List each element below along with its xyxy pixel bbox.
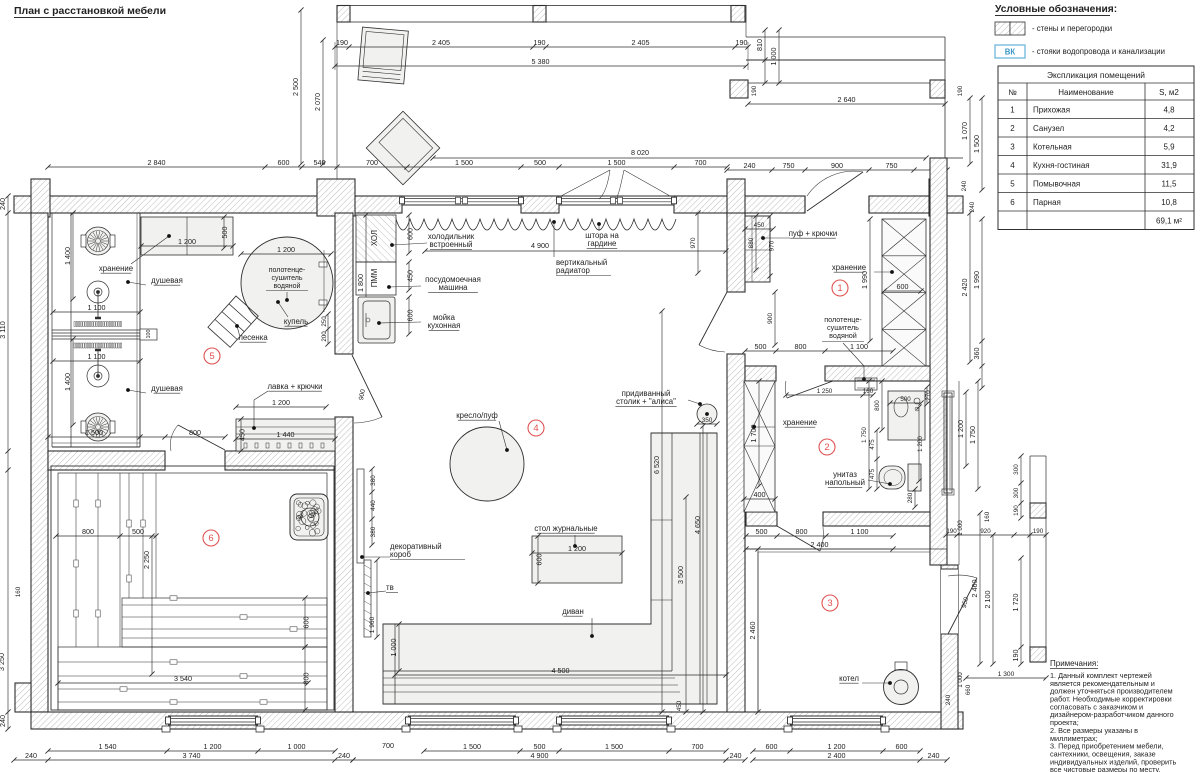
- svg-text:300: 300: [1013, 464, 1020, 475]
- svg-text:1 250: 1 250: [817, 388, 833, 395]
- svg-text:280: 280: [907, 492, 914, 503]
- svg-text:500: 500: [756, 527, 768, 536]
- svg-text:2 640: 2 640: [838, 95, 856, 104]
- svg-text:250: 250: [321, 316, 328, 327]
- svg-text:2 400: 2 400: [828, 751, 846, 760]
- svg-text:1 200: 1 200: [178, 237, 196, 246]
- svg-text:800: 800: [874, 400, 881, 411]
- svg-text:700: 700: [695, 158, 707, 167]
- svg-text:- стены и перегородки: - стены и перегородки: [1032, 24, 1112, 33]
- svg-text:1 500: 1 500: [463, 742, 481, 751]
- svg-text:450: 450: [237, 429, 246, 441]
- svg-text:1 200: 1 200: [568, 544, 586, 553]
- svg-text:2 420: 2 420: [960, 279, 969, 297]
- svg-text:радиатор: радиатор: [556, 266, 591, 275]
- svg-text:1 990: 1 990: [860, 271, 869, 289]
- svg-text:2: 2: [1010, 124, 1015, 133]
- svg-text:котел: котел: [839, 674, 859, 683]
- svg-text:350: 350: [702, 417, 713, 424]
- svg-text:900: 900: [767, 313, 774, 324]
- svg-text:4,2: 4,2: [1163, 124, 1175, 133]
- svg-text:3: 3: [827, 598, 832, 609]
- svg-text:1 500: 1 500: [85, 428, 103, 437]
- svg-text:все чистовые размеры по месту.: все чистовые размеры по месту.: [1050, 765, 1161, 772]
- svg-text:900: 900: [831, 161, 843, 170]
- svg-text:800: 800: [82, 527, 94, 536]
- svg-text:500: 500: [132, 527, 144, 536]
- svg-text:3 110: 3 110: [0, 321, 7, 338]
- svg-text:кресло/пуф: кресло/пуф: [456, 411, 498, 420]
- svg-text:2 250: 2 250: [142, 551, 151, 569]
- svg-text:540: 540: [314, 158, 326, 167]
- svg-text:240: 240: [0, 715, 7, 727]
- svg-text:тв: тв: [386, 583, 394, 592]
- svg-text:6: 6: [208, 533, 213, 544]
- svg-text:380: 380: [370, 475, 377, 486]
- svg-text:2 460: 2 460: [748, 622, 757, 640]
- svg-text:240: 240: [961, 180, 968, 191]
- svg-text:810: 810: [755, 39, 764, 51]
- svg-text:700: 700: [692, 742, 704, 751]
- svg-text:сушитель: сушитель: [271, 275, 302, 282]
- svg-text:1 200: 1 200: [277, 245, 295, 254]
- svg-text:600: 600: [278, 158, 290, 167]
- svg-text:400: 400: [754, 490, 766, 499]
- svg-text:1 990: 1 990: [972, 271, 981, 289]
- svg-text:1 400: 1 400: [63, 373, 72, 391]
- svg-text:3 250: 3 250: [0, 653, 6, 671]
- svg-text:240: 240: [730, 751, 742, 760]
- svg-text:2 460: 2 460: [970, 580, 979, 598]
- svg-text:1 300: 1 300: [998, 671, 1015, 678]
- svg-text:Прихожая: Прихожая: [1033, 106, 1070, 115]
- svg-text:600: 600: [406, 228, 415, 240]
- svg-text:лавка + крючки: лавка + крючки: [267, 382, 322, 391]
- svg-text:920: 920: [980, 528, 991, 535]
- svg-text:1 750: 1 750: [968, 426, 977, 444]
- svg-text:хранение: хранение: [99, 264, 133, 273]
- svg-text:500: 500: [755, 342, 767, 351]
- svg-text:600: 600: [896, 742, 908, 751]
- svg-text:1 500: 1 500: [608, 158, 626, 167]
- svg-text:240: 240: [744, 161, 756, 170]
- svg-text:700: 700: [382, 741, 394, 750]
- svg-text:600: 600: [534, 554, 543, 566]
- svg-text:500: 500: [900, 396, 911, 403]
- svg-text:475: 475: [869, 468, 876, 479]
- svg-text:машина: машина: [439, 283, 469, 292]
- svg-text:10,8: 10,8: [1161, 198, 1177, 207]
- svg-text:380: 380: [370, 526, 377, 537]
- svg-text:190: 190: [736, 38, 748, 47]
- svg-text:Экспликация помещений: Экспликация помещений: [1047, 70, 1145, 80]
- svg-text:600: 600: [302, 617, 311, 629]
- svg-text:Наименование: Наименование: [1058, 88, 1114, 97]
- svg-text:стол журнальные: стол журнальные: [534, 524, 597, 533]
- svg-text:190: 190: [946, 528, 957, 535]
- svg-text:1 500: 1 500: [605, 742, 623, 751]
- svg-text:Помывочная: Помывочная: [1033, 180, 1080, 189]
- svg-text:1 200: 1 200: [828, 742, 846, 751]
- svg-text:600: 600: [897, 282, 909, 291]
- svg-text:11,5: 11,5: [1162, 180, 1178, 189]
- svg-text:3 540: 3 540: [174, 674, 192, 683]
- svg-text:3 740: 3 740: [183, 751, 201, 760]
- svg-text:1 100: 1 100: [851, 527, 869, 536]
- svg-text:1 000: 1 000: [957, 520, 964, 536]
- svg-text:360: 360: [972, 348, 981, 360]
- svg-text:5: 5: [209, 351, 214, 362]
- svg-text:2 840: 2 840: [148, 158, 166, 167]
- svg-text:1 720: 1 720: [1011, 593, 1020, 611]
- svg-text:1 800: 1 800: [356, 274, 365, 292]
- svg-text:2 400: 2 400: [811, 540, 829, 549]
- svg-text:5: 5: [1010, 180, 1015, 189]
- svg-text:1: 1: [837, 283, 842, 294]
- svg-text:4 900: 4 900: [531, 751, 549, 760]
- svg-text:31,9: 31,9: [1161, 161, 1177, 170]
- svg-text:240: 240: [338, 751, 350, 760]
- svg-text:6: 6: [1010, 198, 1015, 207]
- svg-text:ХОЛ: ХОЛ: [370, 230, 379, 246]
- svg-text:2 100: 2 100: [983, 591, 992, 609]
- svg-text:лесенка: лесенка: [238, 333, 268, 342]
- svg-text:1 000: 1 000: [769, 48, 778, 66]
- svg-text:160: 160: [863, 388, 874, 395]
- svg-text:1 200: 1 200: [272, 398, 290, 407]
- svg-text:Санузел: Санузел: [1033, 124, 1064, 133]
- svg-text:450: 450: [676, 700, 683, 711]
- svg-text:800: 800: [189, 428, 201, 437]
- svg-text:5 380: 5 380: [532, 57, 550, 66]
- svg-text:Котельная: Котельная: [1033, 143, 1072, 152]
- svg-text:№: №: [1008, 88, 1017, 97]
- svg-text:240: 240: [945, 694, 952, 705]
- svg-text:душевая: душевая: [151, 384, 183, 393]
- svg-text:970: 970: [690, 237, 697, 248]
- svg-text:3 500: 3 500: [676, 566, 685, 584]
- svg-text:190: 190: [1033, 528, 1044, 535]
- svg-text:душевая: душевая: [151, 276, 183, 285]
- svg-text:700: 700: [366, 158, 378, 167]
- svg-text:диван: диван: [562, 607, 584, 616]
- svg-text:1 960: 1 960: [369, 616, 376, 633]
- svg-text:450: 450: [754, 222, 765, 229]
- svg-text:1 100: 1 100: [88, 352, 106, 361]
- svg-text:1 000: 1 000: [389, 639, 398, 657]
- svg-text:1 200: 1 200: [956, 420, 965, 438]
- svg-text:160: 160: [984, 511, 991, 522]
- svg-text:- стояки водопровода и канализ: - стояки водопровода и канализации: [1032, 47, 1165, 56]
- svg-text:Парная: Парная: [1033, 198, 1061, 207]
- svg-text:водяной: водяной: [829, 331, 857, 340]
- svg-text:Кухня-гостиная: Кухня-гостиная: [1033, 161, 1090, 170]
- svg-text:кухонная: кухонная: [428, 321, 461, 330]
- svg-text:ПММ: ПММ: [370, 269, 379, 288]
- svg-text:5,9: 5,9: [1163, 143, 1175, 152]
- svg-text:190: 190: [534, 38, 546, 47]
- svg-text:300: 300: [1013, 487, 1020, 498]
- svg-text:пуф + крючки: пуф + крючки: [789, 229, 838, 238]
- svg-text:190: 190: [1011, 649, 1020, 661]
- svg-text:1 540: 1 540: [99, 742, 117, 751]
- svg-text:1 070: 1 070: [960, 122, 969, 140]
- svg-text:4 900: 4 900: [531, 241, 549, 250]
- svg-text:купель: купель: [284, 317, 308, 326]
- svg-text:1: 1: [1010, 106, 1015, 115]
- svg-text:3: 3: [1010, 143, 1015, 152]
- svg-text:2 405: 2 405: [432, 38, 450, 47]
- svg-text:190: 190: [957, 85, 964, 96]
- svg-text:2 405: 2 405: [632, 38, 650, 47]
- svg-text:4: 4: [533, 423, 538, 434]
- svg-text:500: 500: [220, 227, 229, 239]
- svg-text:475: 475: [869, 439, 876, 450]
- svg-text:4 500: 4 500: [552, 666, 570, 675]
- svg-text:встроенный: встроенный: [429, 240, 472, 249]
- svg-text:100: 100: [146, 330, 152, 339]
- svg-text:200: 200: [321, 331, 328, 342]
- svg-text:хранение: хранение: [832, 263, 866, 272]
- svg-text:1 100: 1 100: [88, 303, 106, 312]
- svg-text:План с расстановкой мебели: План с расстановкой мебели: [14, 5, 166, 17]
- svg-text:ВК: ВК: [1005, 48, 1016, 57]
- svg-text:Условные обозначения:: Условные обозначения:: [995, 3, 1117, 15]
- svg-text:1 200: 1 200: [917, 436, 924, 452]
- svg-text:800: 800: [796, 527, 808, 536]
- svg-text:4 650: 4 650: [693, 516, 702, 534]
- svg-text:240: 240: [25, 751, 37, 760]
- svg-text:750: 750: [783, 161, 795, 170]
- svg-text:450: 450: [406, 270, 415, 282]
- svg-text:гардине: гардине: [588, 239, 617, 248]
- svg-text:660: 660: [965, 684, 972, 695]
- svg-text:1 750: 1 750: [861, 427, 868, 443]
- svg-text:190: 190: [751, 85, 758, 96]
- svg-text:160: 160: [15, 586, 22, 597]
- svg-text:240: 240: [0, 198, 7, 210]
- svg-text:600: 600: [766, 742, 778, 751]
- svg-text:2 500: 2 500: [291, 78, 300, 96]
- svg-text:1 400: 1 400: [63, 247, 72, 265]
- svg-text:4,8: 4,8: [1163, 106, 1175, 115]
- svg-text:1 440: 1 440: [277, 430, 295, 439]
- svg-text:2: 2: [824, 442, 829, 453]
- svg-text:800: 800: [795, 342, 807, 351]
- svg-text:Примечания:: Примечания:: [1050, 659, 1098, 668]
- svg-text:полотенце-: полотенце-: [269, 267, 306, 274]
- svg-text:2 070: 2 070: [313, 93, 322, 111]
- svg-text:1 500: 1 500: [455, 158, 473, 167]
- svg-text:880: 880: [748, 237, 755, 248]
- svg-text:короб: короб: [390, 550, 412, 559]
- svg-text:8 020: 8 020: [631, 148, 649, 157]
- svg-text:69,1 м²: 69,1 м²: [1156, 217, 1182, 226]
- svg-text:6 520: 6 520: [652, 456, 661, 474]
- svg-text:1 000: 1 000: [957, 672, 964, 688]
- svg-text:4: 4: [1010, 161, 1015, 170]
- svg-text:водяной: водяной: [274, 282, 301, 290]
- svg-text:440: 440: [370, 500, 377, 511]
- svg-text:1 100: 1 100: [850, 342, 868, 351]
- svg-text:750: 750: [886, 161, 898, 170]
- svg-text:190: 190: [1013, 505, 1020, 516]
- svg-text:240: 240: [928, 751, 940, 760]
- svg-text:500: 500: [534, 742, 546, 751]
- svg-text:190: 190: [336, 38, 348, 47]
- svg-text:270: 270: [925, 390, 932, 401]
- svg-text:столик + "алиса": столик + "алиса": [616, 397, 676, 406]
- svg-text:1 500: 1 500: [972, 135, 981, 153]
- svg-text:600: 600: [406, 310, 415, 322]
- svg-text:S, м2: S, м2: [1159, 88, 1179, 97]
- svg-text:хранение: хранение: [783, 418, 817, 427]
- svg-text:1 200: 1 200: [204, 742, 222, 751]
- svg-text:500: 500: [534, 158, 546, 167]
- svg-text:970: 970: [768, 240, 775, 251]
- svg-text:напольный: напольный: [825, 478, 865, 487]
- svg-text:1 000: 1 000: [288, 742, 306, 751]
